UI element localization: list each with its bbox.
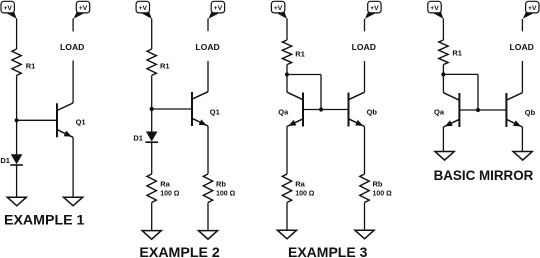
svg-text:100 Ω: 100 Ω [216, 191, 236, 198]
svg-text:100 Ω: 100 Ω [160, 191, 180, 198]
svg-text:+V: +V [370, 5, 379, 12]
svg-text:LOAD: LOAD [195, 42, 219, 52]
svg-text:Ra: Ra [295, 180, 305, 189]
svg-text:Rb: Rb [373, 180, 383, 189]
svg-text:LOAD: LOAD [352, 42, 376, 52]
svg-text:Qa: Qa [434, 108, 445, 117]
svg-text:EXAMPLE 2: EXAMPLE 2 [139, 245, 220, 258]
svg-text:Qb: Qb [525, 108, 536, 117]
svg-text:Q1: Q1 [76, 117, 86, 126]
svg-text:+V: +V [3, 5, 12, 12]
svg-text:D1: D1 [0, 156, 10, 165]
svg-text:EXAMPLE 1: EXAMPLE 1 [4, 212, 85, 228]
svg-text:R1: R1 [26, 61, 36, 70]
svg-text:EXAMPLE 3: EXAMPLE 3 [288, 244, 368, 258]
svg-text:+V: +V [79, 5, 88, 12]
svg-text:Q1: Q1 [210, 107, 220, 116]
svg-text:R1: R1 [160, 61, 170, 70]
svg-text:100 Ω: 100 Ω [373, 191, 393, 198]
svg-text:Ra: Ra [160, 180, 170, 189]
svg-text:LOAD: LOAD [60, 42, 84, 52]
svg-text:+V: +V [430, 5, 439, 12]
svg-text:+V: +V [528, 5, 537, 12]
svg-text:R1: R1 [295, 49, 305, 58]
svg-text:+V: +V [274, 5, 283, 12]
svg-text:Qa: Qa [278, 108, 289, 117]
svg-text:+V: +V [139, 5, 148, 12]
svg-text:100 Ω: 100 Ω [295, 191, 315, 198]
svg-text:Rb: Rb [216, 180, 226, 189]
svg-text:R1: R1 [452, 49, 462, 58]
svg-text:Qb: Qb [367, 108, 378, 117]
svg-text:LOAD: LOAD [510, 42, 534, 52]
svg-text:BASIC MIRROR: BASIC MIRROR [434, 168, 534, 183]
svg-text:+V: +V [214, 5, 223, 12]
svg-text:D1: D1 [133, 133, 143, 142]
